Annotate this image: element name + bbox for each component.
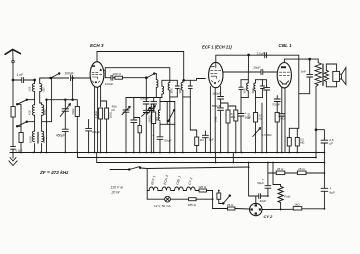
resistor R6 — [152, 104, 156, 153]
capacitor 50uF b — [238, 112, 252, 120]
potentiometer 0,5M — [253, 103, 272, 153]
resistor R9 — [221, 103, 237, 153]
node psu dots — [212, 162, 326, 211]
coil L1a — [32, 84, 34, 92]
svg-text:0,5µF: 0,5µF — [16, 148, 23, 152]
capacitor 500pF b — [151, 102, 157, 104]
resistor grid leak — [190, 97, 204, 153]
switch S1a — [50, 73, 60, 79]
capacitor 40uF — [256, 194, 268, 203]
node top line — [248, 54, 250, 56]
coil L4b osc — [162, 80, 164, 97]
trimmer T2 — [147, 104, 155, 153]
SECTION: rails — [10, 152, 325, 164]
transformer core — [322, 64, 323, 86]
capacitor 1nF — [17, 73, 24, 83]
resistor R4 — [99, 108, 103, 119]
node osc — [145, 77, 147, 79]
svg-text:4,50: 4,50 — [29, 110, 32, 115]
resistor 1k — [293, 202, 302, 210]
svg-text:kΩ: kΩ — [259, 116, 262, 120]
capacitor C-ant-gnd — [11, 147, 23, 153]
svg-text:+: + — [152, 134, 154, 138]
svg-text:pF: pF — [112, 108, 116, 112]
wire CY2 row — [213, 208, 250, 211]
svg-text:2µF: 2µF — [209, 137, 214, 141]
svg-text:50kΩ: 50kΩ — [110, 112, 113, 118]
coil L3a — [32, 131, 34, 142]
wire CBL1 top cap to transformer — [284, 59, 318, 63]
svg-text:ZF = 472 kHz: ZF = 472 kHz — [39, 170, 69, 175]
svg-text:1M: 1M — [200, 138, 205, 142]
resistor R3 — [75, 107, 79, 117]
wire drop x46 — [46, 100, 48, 153]
resistor 100ohm — [105, 72, 123, 86]
wire ECH3 cathode leads — [95, 85, 101, 152]
IFT2 primary tank — [239, 80, 248, 98]
wire ground bus — [10, 152, 324, 154]
svg-text:50kΩ: 50kΩ — [72, 108, 75, 114]
IFT1 primary tank — [168, 80, 179, 97]
svg-text:25 Ω: 25 Ω — [277, 167, 284, 171]
resistor R-ant — [11, 107, 15, 118]
svg-text:110 V ≅: 110 V ≅ — [111, 186, 124, 190]
wire antenna down-lead — [12, 50, 14, 147]
svg-text:1MΩ: 1MΩ — [215, 117, 218, 122]
heater ECH3 — [160, 187, 173, 191]
IFT1 secondary tank — [181, 80, 192, 97]
svg-text:MΩ: MΩ — [300, 141, 304, 145]
capacitor 700pF — [272, 96, 280, 113]
tube CBL1 U3 — [277, 62, 291, 87]
svg-text:MΩ: MΩ — [280, 116, 284, 120]
wire rail B — [97, 162, 325, 164]
capacitor 5nF — [301, 59, 313, 94]
svg-text:1000: 1000 — [243, 87, 246, 93]
field coil — [273, 163, 290, 210]
svg-text:CY 2: CY 2 — [188, 177, 194, 185]
svg-text:5nF: 5nF — [301, 69, 306, 73]
capacitor 25nF — [257, 51, 267, 57]
wire to 1nF — [13, 79, 22, 81]
SECTION: IFT1 — [168, 79, 205, 153]
svg-text:ECF 1 (ECH 21): ECF 1 (ECH 21) — [202, 45, 232, 50]
switch mains — [129, 167, 142, 171]
svg-text:1,2kΩ: 1,2kΩ — [95, 111, 98, 118]
core L3 — [38, 132, 39, 143]
wire 1nF to coil — [24, 79, 35, 81]
capacitor C-pl — [111, 75, 113, 80]
svg-text:4000: 4000 — [44, 109, 47, 115]
svg-text:ECH 3: ECH 3 — [163, 175, 170, 186]
wire CY2 plate feed — [249, 163, 256, 204]
wire switch common — [17, 104, 21, 152]
resistor 185ohm — [189, 198, 213, 201]
svg-text:ECF 1: ECF 1 — [150, 175, 156, 185]
capacitor 50uF — [257, 173, 271, 196]
tube ECF1 U2 — [209, 62, 223, 87]
switch S1c — [16, 121, 34, 127]
wire filter line y173 — [268, 163, 325, 174]
label winding values — [29, 86, 255, 143]
wire CBL1 bottom leads — [282, 87, 285, 153]
svg-text:40µF: 40µF — [260, 199, 267, 203]
coil L1b — [40, 84, 42, 92]
wire IFT1 primary bottom drop — [169, 97, 171, 153]
resistor R10 — [228, 106, 238, 153]
wire plate feed line — [105, 68, 170, 81]
tube ECH3 U1 — [90, 62, 104, 88]
capacitor 8uF — [321, 187, 335, 195]
wire R3 — [65, 78, 77, 153]
wire tank2 drop — [160, 124, 175, 152]
lamp 12V — [147, 196, 188, 202]
svg-text:CBL 1: CBL 1 — [175, 175, 181, 185]
svg-text:900: 900 — [156, 116, 159, 121]
svg-text:700pF: 700pF — [272, 102, 280, 106]
ground — [9, 153, 17, 166]
coil L3b — [42, 131, 44, 142]
switch S3 — [223, 195, 231, 204]
svg-text:450pF: 450pF — [56, 134, 65, 138]
svg-text:8µF: 8µF — [330, 191, 336, 195]
capacitor 20uF — [253, 66, 263, 75]
resistor 25ohm a — [276, 167, 285, 175]
resistor 25ohm heater — [227, 203, 235, 210]
transformer primary — [315, 63, 321, 85]
resistor 25ohm b — [297, 167, 306, 175]
tuning gang C1 — [47, 100, 71, 153]
wire to CBL1 grid — [263, 71, 278, 73]
svg-text:50000: 50000 — [148, 115, 151, 123]
svg-text:ECH 3: ECH 3 — [90, 43, 104, 48]
heater labels — [150, 175, 193, 186]
resistor R2 — [19, 133, 23, 143]
SECTION: CBL1 output — [277, 43, 318, 153]
antenna — [5, 49, 20, 62]
capacitor 50uF electrolytic — [152, 134, 171, 153]
svg-text:12 V, 50 mA: 12 V, 50 mA — [154, 204, 172, 208]
svg-text:500µF: 500µF — [212, 104, 221, 108]
svg-text:125 Ω: 125 Ω — [198, 185, 207, 189]
heater CBL1 — [172, 187, 185, 191]
wire B+ out — [262, 208, 325, 211]
SECTION: ECF1 stage — [202, 45, 299, 153]
svg-text:100µF: 100µF — [212, 92, 221, 96]
switch S1b — [16, 99, 34, 105]
wire R5 — [101, 101, 107, 153]
wire g2 row — [105, 77, 115, 79]
svg-text:1000: 1000 — [252, 87, 255, 93]
svg-text:µF: µF — [329, 141, 333, 145]
svg-text:100 Ω: 100 Ω — [113, 72, 122, 76]
SECTION: IFT2 + detector — [238, 55, 285, 153]
svg-text:1 nF: 1 nF — [17, 73, 24, 77]
resistor padder series — [134, 118, 142, 153]
osc tank2 — [158, 98, 175, 125]
node bus dots — [12, 152, 325, 164]
svg-text:25 Ω: 25 Ω — [298, 167, 305, 171]
svg-text:100pF: 100pF — [65, 72, 74, 76]
SECTION: oscillator — [112, 74, 175, 153]
capacitor 500pF k — [212, 104, 224, 153]
wire IFT1 sec bottom drop — [182, 97, 184, 153]
capacitor Ck — [279, 114, 285, 153]
capacitor tank2 aux — [262, 80, 269, 153]
IFT2 secondary tank — [254, 80, 265, 98]
wire mains line — [110, 167, 249, 170]
svg-text:20µF: 20µF — [253, 66, 260, 70]
resistor NTC — [217, 191, 223, 204]
resistor 125ohm — [198, 185, 207, 192]
svg-text:50µF: 50µF — [164, 139, 171, 143]
svg-text:2,5µF: 2,5µF — [257, 51, 265, 55]
wire IFT2 primary feed — [241, 55, 249, 153]
switch S2 — [148, 73, 157, 78]
transformer secondary — [324, 70, 328, 81]
SECTION: labels — [29, 86, 255, 208]
node coil top — [34, 79, 36, 81]
node antenna junction — [12, 79, 14, 81]
node branch — [315, 129, 317, 131]
svg-text:0,5 MΩ: 0,5 MΩ — [262, 133, 273, 137]
wire ECF1 right line — [223, 71, 261, 73]
capacitor 100pF grid — [65, 72, 74, 81]
svg-text:20 W: 20 W — [111, 191, 121, 195]
wire gang to osc — [126, 97, 154, 99]
svg-text:10000: 10000 — [30, 135, 33, 143]
speaker LS — [333, 68, 346, 85]
wire to ECH3 grid — [72, 77, 90, 79]
wire R4 — [100, 119, 102, 153]
svg-text:25 Ω: 25 Ω — [227, 203, 234, 207]
wire heater drop — [146, 169, 148, 200]
svg-text:0,1µF: 0,1µF — [92, 130, 100, 134]
wire IFT1 sec top to ECF1 grid — [190, 79, 205, 81]
resistor R13 — [287, 128, 299, 152]
wire ECH3 top cap line — [97, 52, 184, 81]
svg-text:20000: 20000 — [43, 135, 46, 143]
svg-text:Feld: Feld — [284, 195, 290, 199]
svg-text:1,50: 1,50 — [29, 86, 32, 91]
wire grid feed — [40, 78, 69, 80]
SECTION: power supply bottom — [110, 162, 325, 219]
wire heater end — [197, 191, 212, 209]
coil L2b — [42, 105, 44, 115]
svg-text:500pF: 500pF — [140, 97, 149, 101]
wire column A — [34, 80, 36, 153]
svg-text:100µF: 100µF — [105, 82, 114, 86]
capacitor 4,5uF — [321, 138, 334, 146]
svg-text:1kΩ: 1kΩ — [294, 202, 300, 206]
resistor R12 — [275, 113, 284, 153]
coil L2a — [32, 105, 34, 115]
wire column B — [40, 80, 42, 153]
wire osc bottoms — [154, 80, 170, 97]
svg-text:CY 2: CY 2 — [264, 214, 274, 219]
wire filter branch — [316, 130, 324, 209]
svg-text:1000: 1000 — [179, 87, 182, 93]
wire osc caps — [146, 78, 153, 110]
svg-text:500: 500 — [43, 87, 46, 92]
wire B+ vertical x316 — [316, 85, 318, 158]
wire rail A — [78, 157, 317, 159]
svg-text:CBL 1: CBL 1 — [279, 43, 293, 48]
capacitor padder — [131, 98, 137, 153]
wire grid drop — [299, 55, 310, 128]
capacitor 100pF k — [212, 92, 223, 108]
tube CY2 U4 — [250, 203, 273, 219]
capacitor 0,1uF — [86, 120, 101, 153]
wire ECF1 bottom leads — [210, 86, 220, 152]
node IFT1 top — [183, 79, 185, 81]
resistor R14 — [295, 138, 304, 153]
wire rail tie a — [77, 153, 79, 158]
svg-text:50kΩ: 50kΩ — [247, 113, 250, 119]
resistor R5 — [105, 108, 109, 119]
tuning gang C2 — [112, 98, 131, 153]
coil L4a osc — [156, 74, 158, 98]
SECTION: frontend coils — [16, 72, 90, 153]
wire ECF1 top line — [216, 55, 299, 62]
svg-text:1000: 1000 — [171, 87, 174, 93]
capacitor Ck ECF1 — [202, 131, 214, 153]
svg-text:185 Ω: 185 Ω — [188, 203, 197, 207]
wire secondary to speaker — [326, 64, 336, 87]
node 5nF tap — [309, 58, 311, 60]
wire IFT2 sec bottom — [255, 98, 257, 153]
resistor R11 — [253, 113, 262, 123]
heater CY2 — [185, 187, 197, 191]
heater ECF1 — [147, 187, 159, 191]
wire to osc switch — [123, 77, 148, 79]
wire drop x51 — [42, 78, 52, 122]
wire plate riser — [104, 68, 106, 78]
SECTION: transformer + speaker — [315, 63, 346, 209]
SECTION: ECH3 stage — [65, 43, 183, 153]
capacitor 500pF a — [140, 97, 149, 104]
svg-text:+: + — [262, 178, 264, 182]
trimmer T1 — [142, 107, 151, 152]
node tune row — [46, 99, 48, 101]
SECTION: antenna input — [5, 49, 66, 165]
wire rail ties — [97, 153, 234, 163]
